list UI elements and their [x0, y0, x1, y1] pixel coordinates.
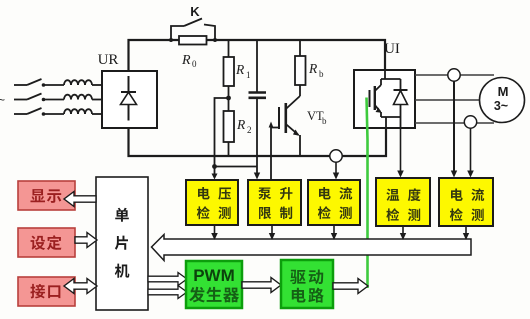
svg-text:UI: UI [384, 41, 400, 57]
block: voltage detect 电压检测 [186, 180, 238, 225]
block: setting 设定 [18, 228, 75, 257]
block: current detect 电流检测 (output) [439, 178, 493, 226]
wire: phase W sensor to current-detect [467, 123, 474, 178]
svg-text:UR: UR [98, 52, 119, 68]
block: pump-up limit 泵升限制 [248, 180, 301, 225]
wire: motor phase W [415, 122, 494, 124]
svg-text:R: R [235, 62, 245, 77]
resistor R2 [224, 98, 235, 156]
svg-text:PWM: PWM [193, 266, 235, 285]
svg-text:3~: 3~ [494, 99, 508, 113]
current sensor circle on phase U [448, 69, 460, 81]
wire: phase U sensor to current-detect [451, 75, 457, 178]
svg-text:R: R [308, 61, 318, 76]
svg-text:R: R [181, 53, 191, 68]
wire: current-detect2 output to bus [463, 226, 469, 240]
inverter UI block [354, 70, 415, 128]
wire: VTb gate from pump-limit box [269, 122, 279, 181]
resistor R0 charging resistor [179, 36, 207, 45]
block: interface 接口 [18, 277, 75, 306]
arrow: drive circuit output to gate wire [333, 279, 368, 294]
motor M 3-phase [480, 78, 525, 123]
svg-text:b: b [322, 116, 327, 126]
svg-text:M: M [498, 84, 509, 99]
arrow: MCU to PWM generator lower [148, 286, 187, 299]
wire: DC+ top bus [129, 40, 386, 71]
svg-text:1: 1 [246, 70, 251, 80]
wire: cap node down to pump-limit box [254, 156, 260, 180]
wire: voltage-detect output to bus [211, 225, 218, 240]
arrow: MCU to display [64, 192, 96, 207]
wire: UI emitter to DC- bus [385, 128, 387, 156]
rectifier UR block [102, 71, 157, 128]
wire: current-detect output to bus [331, 225, 337, 240]
svg-text:K: K [190, 4, 200, 19]
svg-text:R: R [236, 117, 246, 132]
svg-text:~: ~ [0, 93, 5, 107]
wire: motor phase V [415, 99, 481, 101]
current sensor circle on phase W [464, 116, 476, 128]
arrow: PWM to drive circuit [242, 278, 281, 293]
wire: divider tap to voltage-detect and pump-limit [212, 98, 258, 180]
block: display 显示 [18, 181, 75, 210]
transistor VTb braking IGBT [279, 96, 300, 156]
svg-text:0: 0 [192, 59, 197, 69]
block: microcontroller 单片机 [96, 177, 148, 310]
switch K bypass contactor [169, 19, 217, 43]
arrow: interface to/from MCU [64, 279, 97, 294]
svg-text:2: 2 [247, 125, 252, 135]
resistor R1 [224, 40, 235, 98]
resistor Rb braking resistor [295, 40, 306, 96]
wire: gate drive green wire from drive circuit to UI gate [367, 98, 368, 289]
block: temperature detect 温度检测 [376, 178, 430, 226]
wire: pump-limit output to bus [269, 225, 275, 240]
wire: UI to temperature-detect box [397, 128, 404, 178]
node: R1-R2 divider tap junction [226, 96, 231, 101]
block: current detect 电流检测 (DC) [308, 180, 360, 225]
wire: sensor to current-detect box [333, 162, 339, 179]
block: PWM generator PWM发生器 [186, 261, 242, 308]
wire: DC- bottom bus [129, 128, 387, 156]
wire: temperature-detect output to bus [400, 226, 406, 240]
three-phase input wires with breaker switches and inductors [14, 79, 102, 116]
wire: motor phase U [415, 74, 494, 76]
arrow: MCU to PWM generator upper [148, 273, 187, 286]
block: drive circuit 驱动电路 [281, 260, 333, 308]
current sensor circle on DC- bus [330, 150, 342, 162]
capacitor C DC-link [249, 40, 267, 156]
bus arrow: detect signals into MCU [152, 235, 472, 261]
svg-text:b: b [319, 69, 324, 79]
arrow: setting to MCU [75, 233, 97, 248]
